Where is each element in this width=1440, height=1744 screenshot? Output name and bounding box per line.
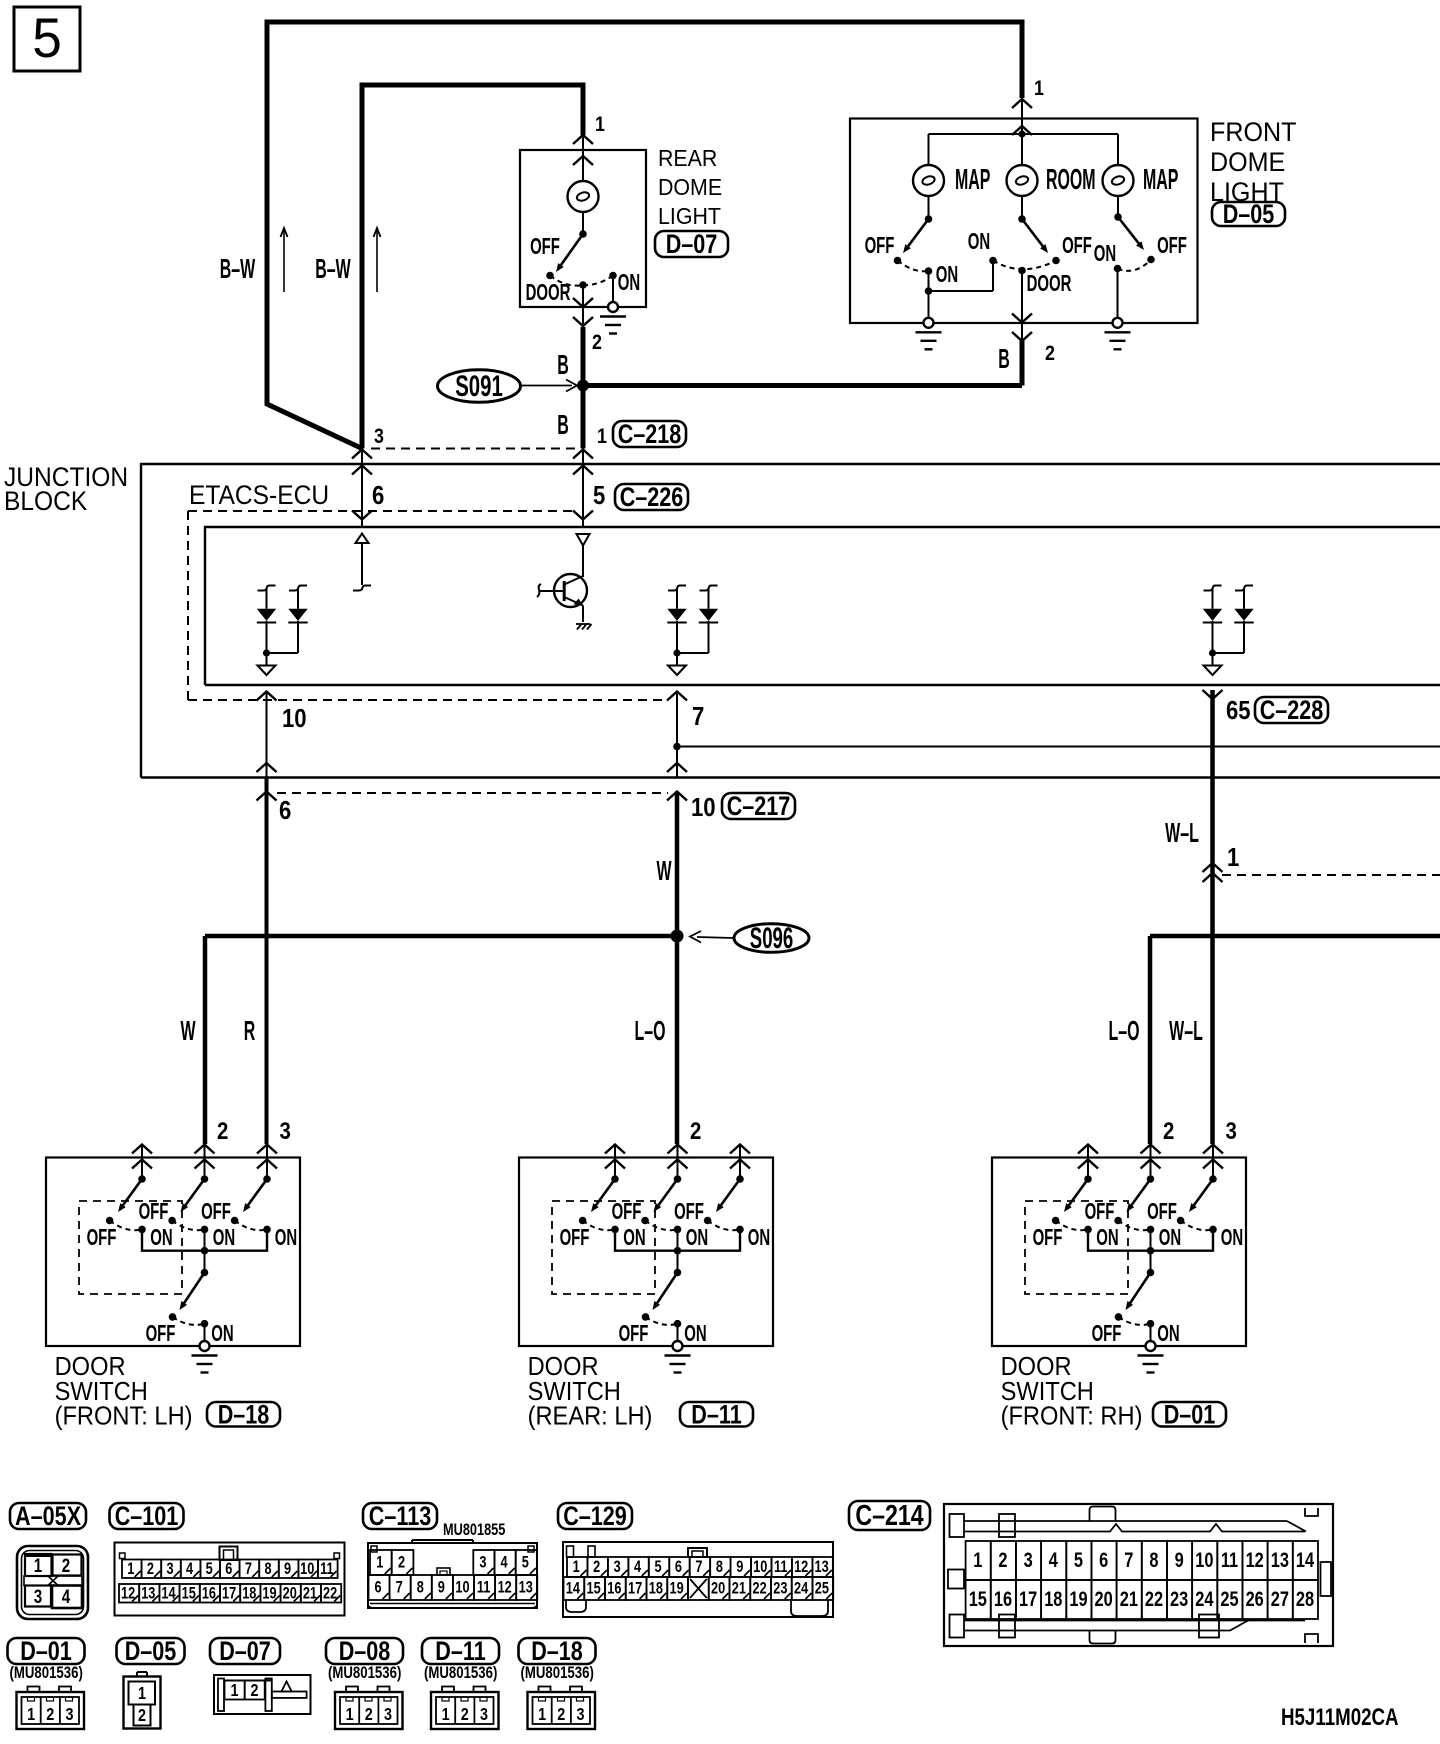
svg-text:ON: ON (618, 270, 640, 296)
svg-text:12: 12 (121, 1584, 135, 1603)
svg-text:3: 3 (166, 1559, 173, 1578)
wire D3 cathode join (1213, 652, 1245, 654)
svg-text:24: 24 (794, 1579, 809, 1598)
svg-text:MU801855: MU801855 (443, 1520, 505, 1539)
svg-text:7: 7 (245, 1559, 252, 1578)
svg-text:9: 9 (438, 1578, 445, 1597)
svg-text:OFF: OFF (146, 1321, 176, 1347)
svg-text:C–129: C–129 (563, 1502, 627, 1532)
connector dashed line right (1222, 874, 1440, 876)
svg-text:11: 11 (1221, 1548, 1238, 1571)
svg-text:8: 8 (716, 1557, 723, 1576)
pin 10 connector C-217 (667, 763, 687, 772)
wire to ground D–18 (204, 1324, 206, 1341)
svg-text:24: 24 (1195, 1587, 1214, 1610)
switch right map (1117, 196, 1119, 217)
svg-text:2: 2 (62, 1554, 70, 1576)
svg-text:10: 10 (753, 1557, 767, 1576)
tag C-228 (1255, 697, 1328, 723)
svg-text:21: 21 (732, 1579, 746, 1598)
svg-text:1: 1 (595, 113, 605, 137)
svg-text:OFF: OFF (87, 1225, 117, 1251)
node pin7 branch junction (673, 743, 681, 751)
svg-text:6: 6 (375, 1578, 382, 1597)
svg-text:2: 2 (1163, 1117, 1174, 1144)
node S096 splice (671, 930, 684, 943)
tag C-217 (722, 793, 795, 819)
svg-text:ETACS-ECU: ETACS-ECU (189, 481, 329, 510)
pin 2 rear dome light (582, 285, 584, 326)
svg-text:(MU801536): (MU801536) (10, 1664, 83, 1683)
svg-text:D–05: D–05 (1223, 200, 1275, 230)
svg-text:D–01: D–01 (1164, 1400, 1216, 1430)
connector D–11 pinout (431, 1692, 499, 1729)
svg-text:ON: ON (1094, 241, 1116, 267)
svg-text:10: 10 (1195, 1548, 1213, 1571)
svg-text:ON: ON (686, 1225, 708, 1251)
svg-text:3: 3 (576, 1705, 584, 1725)
svg-text:OFF: OFF (139, 1199, 169, 1225)
svg-text:(MU801536): (MU801536) (521, 1664, 594, 1683)
pin 3 connector C-218 entry (352, 450, 372, 459)
wire B-W outer feed (to front dome light) (267, 22, 1022, 449)
svg-text:ON: ON (213, 1225, 235, 1251)
door switch box D–18 (46, 1158, 300, 1347)
ground front dome right (1113, 318, 1123, 328)
node ON link D–11 (674, 1247, 682, 1255)
svg-text:15: 15 (182, 1584, 196, 1603)
wire ON terminal to ground (612, 276, 614, 303)
diode D3a (1204, 586, 1222, 591)
svg-text:OFF: OFF (619, 1321, 649, 1347)
tag D-05 (1212, 202, 1285, 226)
svg-text:14: 14 (566, 1579, 581, 1598)
connector D–01 tag (8, 1638, 85, 1664)
wire L-O right horizontal (1150, 934, 1440, 939)
svg-text:3: 3 (280, 1117, 291, 1144)
svg-text:ON: ON (150, 1225, 172, 1251)
switch contact 1 D–01 (1084, 1175, 1092, 1183)
node S091 splice (577, 380, 589, 392)
svg-text:C–113: C–113 (369, 1502, 431, 1532)
wire right ground drop (1117, 269, 1119, 319)
svg-text:1: 1 (597, 425, 607, 449)
svg-text:16: 16 (202, 1584, 216, 1603)
node D3 junction (1209, 649, 1216, 656)
svg-text:17: 17 (222, 1584, 236, 1603)
ecu internal supply symbol (pin6) (356, 534, 369, 544)
switch rear dome light (579, 230, 587, 238)
svg-text:22: 22 (753, 1579, 767, 1598)
wire drop left map (928, 134, 930, 165)
svg-text:1: 1 (34, 1554, 43, 1576)
svg-text:10: 10 (455, 1578, 469, 1597)
tag D–18 (207, 1402, 280, 1427)
svg-text:17: 17 (1019, 1587, 1037, 1610)
wire ON link D–01 (1088, 1229, 1213, 1250)
junction block box (141, 464, 1440, 778)
svg-text:3: 3 (65, 1705, 73, 1725)
connector D-05 pinout (124, 1677, 161, 1729)
svg-text:26: 26 (1246, 1587, 1264, 1610)
svg-text:19: 19 (670, 1579, 684, 1598)
svg-text:ON: ON (684, 1321, 706, 1347)
svg-text:W–L: W–L (1165, 816, 1199, 848)
svg-text:3: 3 (479, 1553, 486, 1572)
node front dome bus junction (1018, 130, 1025, 137)
svg-text:ON: ON (1221, 1225, 1243, 1251)
node D1 junction (263, 649, 270, 656)
connector D–18 tag (519, 1638, 596, 1664)
svg-text:6: 6 (372, 481, 384, 510)
svg-text:L–O: L–O (634, 1014, 665, 1046)
svg-text:23: 23 (773, 1579, 787, 1598)
svg-text:6: 6 (675, 1557, 682, 1576)
wire drop room (1021, 134, 1023, 165)
svg-text:2: 2 (46, 1705, 54, 1725)
tag D-07 (655, 231, 728, 257)
svg-text:OFF: OFF (1157, 233, 1187, 259)
bulb MAP right (1103, 165, 1134, 196)
wire D2 cathode join (677, 652, 709, 654)
lower switch D–01 (1147, 1269, 1155, 1277)
wire D3 output (1212, 653, 1214, 666)
pin 2 front dome light (1021, 271, 1023, 341)
svg-text:18: 18 (649, 1579, 663, 1598)
switch contact 2 D–01 (1147, 1175, 1155, 1183)
svg-text:2: 2 (250, 1681, 258, 1701)
pin 1 front dome light (1012, 99, 1032, 108)
svg-text:L–O: L–O (1108, 1014, 1139, 1046)
svg-text:OFF: OFF (674, 1199, 704, 1225)
svg-text:ON: ON (1159, 1225, 1181, 1251)
svg-text:C–218: C–218 (618, 420, 682, 450)
svg-text:B: B (557, 408, 569, 440)
svg-text:12: 12 (1246, 1548, 1264, 1571)
connector line C-217 (277, 792, 668, 794)
svg-text:10: 10 (282, 704, 307, 733)
connector D–08 tag (326, 1638, 403, 1664)
svg-text:B: B (998, 342, 1010, 374)
svg-text:23: 23 (1170, 1587, 1188, 1610)
lower switch D–11 (674, 1269, 682, 1277)
svg-text:4: 4 (62, 1585, 71, 1607)
wire to ground D–01 (1150, 1324, 1152, 1341)
dashed internal boundary D–01 (1025, 1201, 1128, 1294)
svg-text:9: 9 (284, 1559, 291, 1578)
svg-text:R: R (244, 1014, 256, 1046)
connector A-05X tag (10, 1503, 86, 1529)
svg-text:S096: S096 (750, 922, 793, 956)
svg-text:25: 25 (815, 1579, 829, 1598)
wire B-W inner feed (to rear dome light) (362, 85, 583, 449)
pin 1/5 wire C-218 to C-226 (573, 450, 593, 459)
svg-text:C–228: C–228 (1260, 696, 1324, 726)
connector C-101 tag (110, 1503, 184, 1529)
bulb ROOM (1007, 165, 1038, 196)
wire bulb to switch (582, 212, 584, 234)
diode D2b (700, 586, 718, 591)
svg-text:4: 4 (1049, 1548, 1059, 1571)
svg-text:6: 6 (279, 796, 291, 825)
flow arrow left (283, 231, 285, 292)
svg-text:OFF: OFF (530, 234, 560, 260)
svg-text:25: 25 (1220, 1587, 1238, 1610)
svg-text:C–217: C–217 (727, 792, 791, 822)
svg-text:10: 10 (691, 793, 716, 822)
svg-text:16: 16 (607, 1579, 621, 1598)
switch contact 1 D–11 (611, 1175, 619, 1183)
svg-text:D–18: D–18 (531, 1637, 583, 1667)
connector D–08 pinout (335, 1692, 403, 1729)
wire B splice to front dome pin2 (583, 383, 1022, 388)
wire drop right map (1117, 134, 1119, 165)
svg-text:LIGHT: LIGHT (658, 203, 721, 229)
svg-text:18: 18 (242, 1584, 256, 1603)
svg-text:OFF: OFF (612, 1199, 642, 1225)
pin 2 D–18 (195, 1145, 215, 1154)
svg-text:2: 2 (461, 1705, 469, 1725)
svg-text:B–W: B–W (315, 252, 351, 284)
svg-text:1: 1 (1034, 77, 1044, 101)
splice S091 oval (438, 370, 521, 403)
connector D-07 tag (210, 1638, 280, 1664)
svg-text:ON: ON (968, 229, 990, 255)
switch contact 1 D–18 (138, 1175, 146, 1183)
svg-text:ON: ON (1096, 1225, 1118, 1251)
svg-text:11: 11 (477, 1578, 490, 1597)
svg-text:3: 3 (34, 1585, 42, 1607)
svg-text:20: 20 (1095, 1587, 1113, 1610)
svg-text:17: 17 (628, 1579, 642, 1598)
svg-text:5: 5 (654, 1557, 661, 1576)
connector A-05X pinout (17, 1546, 88, 1619)
arrow S096 to splice (697, 937, 734, 938)
svg-text:3: 3 (1024, 1548, 1033, 1571)
svg-text:11: 11 (320, 1559, 333, 1578)
svg-text:14: 14 (161, 1584, 176, 1603)
pin 7 ecu (667, 692, 687, 701)
connector D–01 pinout (17, 1692, 85, 1729)
pin 1 D–18 (132, 1145, 152, 1154)
wire ON link D–18 (142, 1229, 267, 1250)
svg-text:1: 1 (376, 1553, 383, 1572)
svg-text:11: 11 (774, 1557, 787, 1576)
svg-text:OFF: OFF (1147, 1199, 1177, 1225)
svg-text:D–01: D–01 (20, 1637, 72, 1667)
svg-text:6: 6 (225, 1559, 232, 1578)
rear dome light box D-07 (520, 150, 646, 307)
tag D–11 (680, 1402, 753, 1427)
svg-text:2: 2 (365, 1705, 373, 1725)
svg-text:2: 2 (593, 1557, 600, 1576)
svg-text:21: 21 (1120, 1587, 1138, 1610)
diode D1b (289, 586, 307, 591)
dashed internal boundary D–11 (552, 1201, 655, 1294)
svg-text:ON: ON (1157, 1321, 1179, 1347)
ground front dome left (924, 318, 934, 328)
svg-text:21: 21 (303, 1584, 317, 1603)
svg-text:2: 2 (217, 1117, 228, 1144)
svg-text:1: 1 (973, 1548, 982, 1571)
svg-text:2: 2 (557, 1705, 565, 1725)
arrow S091 to splice (521, 385, 572, 387)
connector D–11 tag (422, 1638, 499, 1664)
svg-text:3: 3 (480, 1705, 488, 1725)
svg-text:C–226: C–226 (620, 483, 684, 513)
svg-text:DOOR: DOOR (528, 1353, 599, 1381)
wire to ground D–11 (677, 1324, 679, 1341)
wire D1 cathode join (267, 652, 299, 654)
connector D–18 pinout (528, 1692, 596, 1729)
svg-text:DOOR: DOOR (1001, 1353, 1072, 1381)
svg-text:12: 12 (498, 1578, 512, 1597)
connector C-129 pinout (563, 1542, 833, 1617)
svg-text:B: B (557, 348, 569, 380)
svg-text:(FRONT: LH): (FRONT: LH) (55, 1403, 193, 1431)
dashed internal boundary D–18 (79, 1201, 182, 1294)
svg-text:ON: ON (275, 1225, 297, 1251)
wire W C-217 pin10 down to splice S096 (675, 792, 680, 937)
svg-text:4: 4 (501, 1553, 509, 1572)
svg-text:MAP: MAP (955, 163, 990, 195)
wire D2 output (676, 653, 678, 666)
pin 2 D–01 (1141, 1145, 1161, 1154)
svg-text:OFF: OFF (1033, 1225, 1063, 1251)
svg-text:H5J11M02CA: H5J11M02CA (1281, 1704, 1399, 1731)
svg-text:DOOR: DOOR (55, 1353, 126, 1381)
switch contact 2 D–18 (201, 1175, 209, 1183)
svg-text:C–101: C–101 (115, 1502, 179, 1532)
svg-text:2: 2 (147, 1559, 154, 1578)
svg-text:2: 2 (1045, 342, 1055, 366)
svg-text:13: 13 (519, 1578, 533, 1597)
wire left ground drop (928, 291, 930, 318)
svg-text:DOME: DOME (658, 174, 722, 200)
svg-text:8: 8 (417, 1578, 424, 1597)
svg-text:W: W (180, 1014, 195, 1046)
svg-text:65: 65 (1226, 696, 1251, 725)
svg-text:1: 1 (27, 1705, 35, 1725)
wire ON link D–11 (615, 1229, 740, 1250)
svg-text:13: 13 (1271, 1548, 1289, 1571)
svg-text:OFF: OFF (865, 233, 895, 259)
svg-text:20: 20 (283, 1584, 297, 1603)
pin 6 connector C-217 (257, 763, 277, 772)
svg-text:22: 22 (1145, 1587, 1163, 1610)
svg-text:12: 12 (794, 1557, 808, 1576)
switch left map (928, 196, 930, 219)
svg-text:B–W: B–W (220, 252, 256, 284)
svg-text:5: 5 (593, 481, 605, 510)
wire R junction to front-LH pin3 (265, 778, 269, 1145)
sheet number box 5 (14, 7, 80, 71)
svg-text:18: 18 (1044, 1587, 1062, 1610)
svg-text:(MU801536): (MU801536) (424, 1664, 497, 1683)
connector C-113 pinout (368, 1543, 537, 1608)
svg-text:28: 28 (1296, 1587, 1314, 1610)
ground D–01 (1146, 1341, 1156, 1351)
pin 10 ecu (257, 692, 277, 701)
diode D2a (668, 586, 686, 591)
svg-text:19: 19 (262, 1584, 276, 1603)
node D2 junction (673, 649, 680, 656)
splice S096 oval (734, 924, 809, 953)
wire D1 output (266, 653, 268, 666)
svg-text:W: W (656, 854, 671, 886)
wire pin7 branch to right edge (677, 746, 1440, 748)
svg-text:13: 13 (815, 1557, 829, 1576)
wire left ON link (928, 271, 930, 291)
wire W-L pin65 down (1210, 690, 1215, 1144)
pin 1 D–11 (605, 1145, 625, 1154)
node ON link D–18 (201, 1247, 209, 1255)
svg-text:8: 8 (1149, 1548, 1158, 1571)
svg-text:27: 27 (1271, 1587, 1289, 1610)
switch room (1021, 196, 1023, 219)
bulb MAP left (913, 165, 944, 196)
switch contact 2 D–11 (674, 1175, 682, 1183)
svg-text:13: 13 (141, 1584, 155, 1603)
svg-text:REAR: REAR (658, 145, 717, 171)
door switch box D–01 (992, 1158, 1246, 1347)
wire L-O down to front-RH pin2 (1148, 936, 1153, 1144)
svg-text:(FRONT: RH): (FRONT: RH) (1001, 1403, 1143, 1431)
svg-text:15: 15 (969, 1587, 987, 1610)
svg-text:1: 1 (1227, 843, 1239, 872)
ground D–18 (200, 1341, 210, 1351)
svg-text:4: 4 (186, 1559, 194, 1578)
svg-text:19: 19 (1069, 1587, 1087, 1610)
connector C-101 pinout (115, 1543, 345, 1616)
svg-text:D–07: D–07 (219, 1637, 271, 1667)
svg-text:2: 2 (592, 331, 602, 355)
svg-text:OFF: OFF (1062, 233, 1092, 259)
pin 3 D–01 (1203, 1145, 1223, 1154)
node ON link D–01 (1147, 1247, 1155, 1255)
svg-text:S091: S091 (455, 370, 503, 403)
wire thick splice to left riser (205, 934, 677, 939)
svg-text:9: 9 (1175, 1548, 1184, 1571)
svg-text:7: 7 (396, 1578, 403, 1597)
diode D3b (1235, 586, 1253, 591)
svg-text:5: 5 (206, 1559, 213, 1578)
svg-text:OFF: OFF (1085, 1199, 1115, 1225)
svg-text:D–18: D–18 (218, 1400, 270, 1430)
wire front dome pin1 to bus (1021, 99, 1023, 134)
connector D-07 pinout (214, 1675, 311, 1714)
connector line C-218 (371, 448, 577, 450)
svg-text:9: 9 (736, 1557, 743, 1576)
svg-text:ON: ON (211, 1321, 233, 1347)
svg-text:(MU801536): (MU801536) (328, 1664, 401, 1683)
pin 3 D–18 (257, 1145, 277, 1154)
pin 6 connector C-226 entry (352, 511, 372, 520)
door switch box D–11 (519, 1158, 773, 1347)
svg-text:A–05X: A–05X (15, 1502, 82, 1532)
switch contact 3 D–18 (263, 1175, 271, 1183)
svg-text:2: 2 (138, 1706, 146, 1726)
connector C-214 tag (849, 1501, 930, 1530)
switch contact 3 D–11 (736, 1175, 744, 1183)
ecu inner box (205, 527, 1440, 685)
svg-text:7: 7 (695, 1557, 702, 1576)
svg-text:6: 6 (1099, 1548, 1108, 1571)
svg-text:10: 10 (300, 1559, 314, 1578)
svg-text:FRONT: FRONT (1210, 116, 1297, 147)
svg-text:D–11: D–11 (691, 1400, 741, 1430)
ground rear dome light (608, 302, 618, 312)
